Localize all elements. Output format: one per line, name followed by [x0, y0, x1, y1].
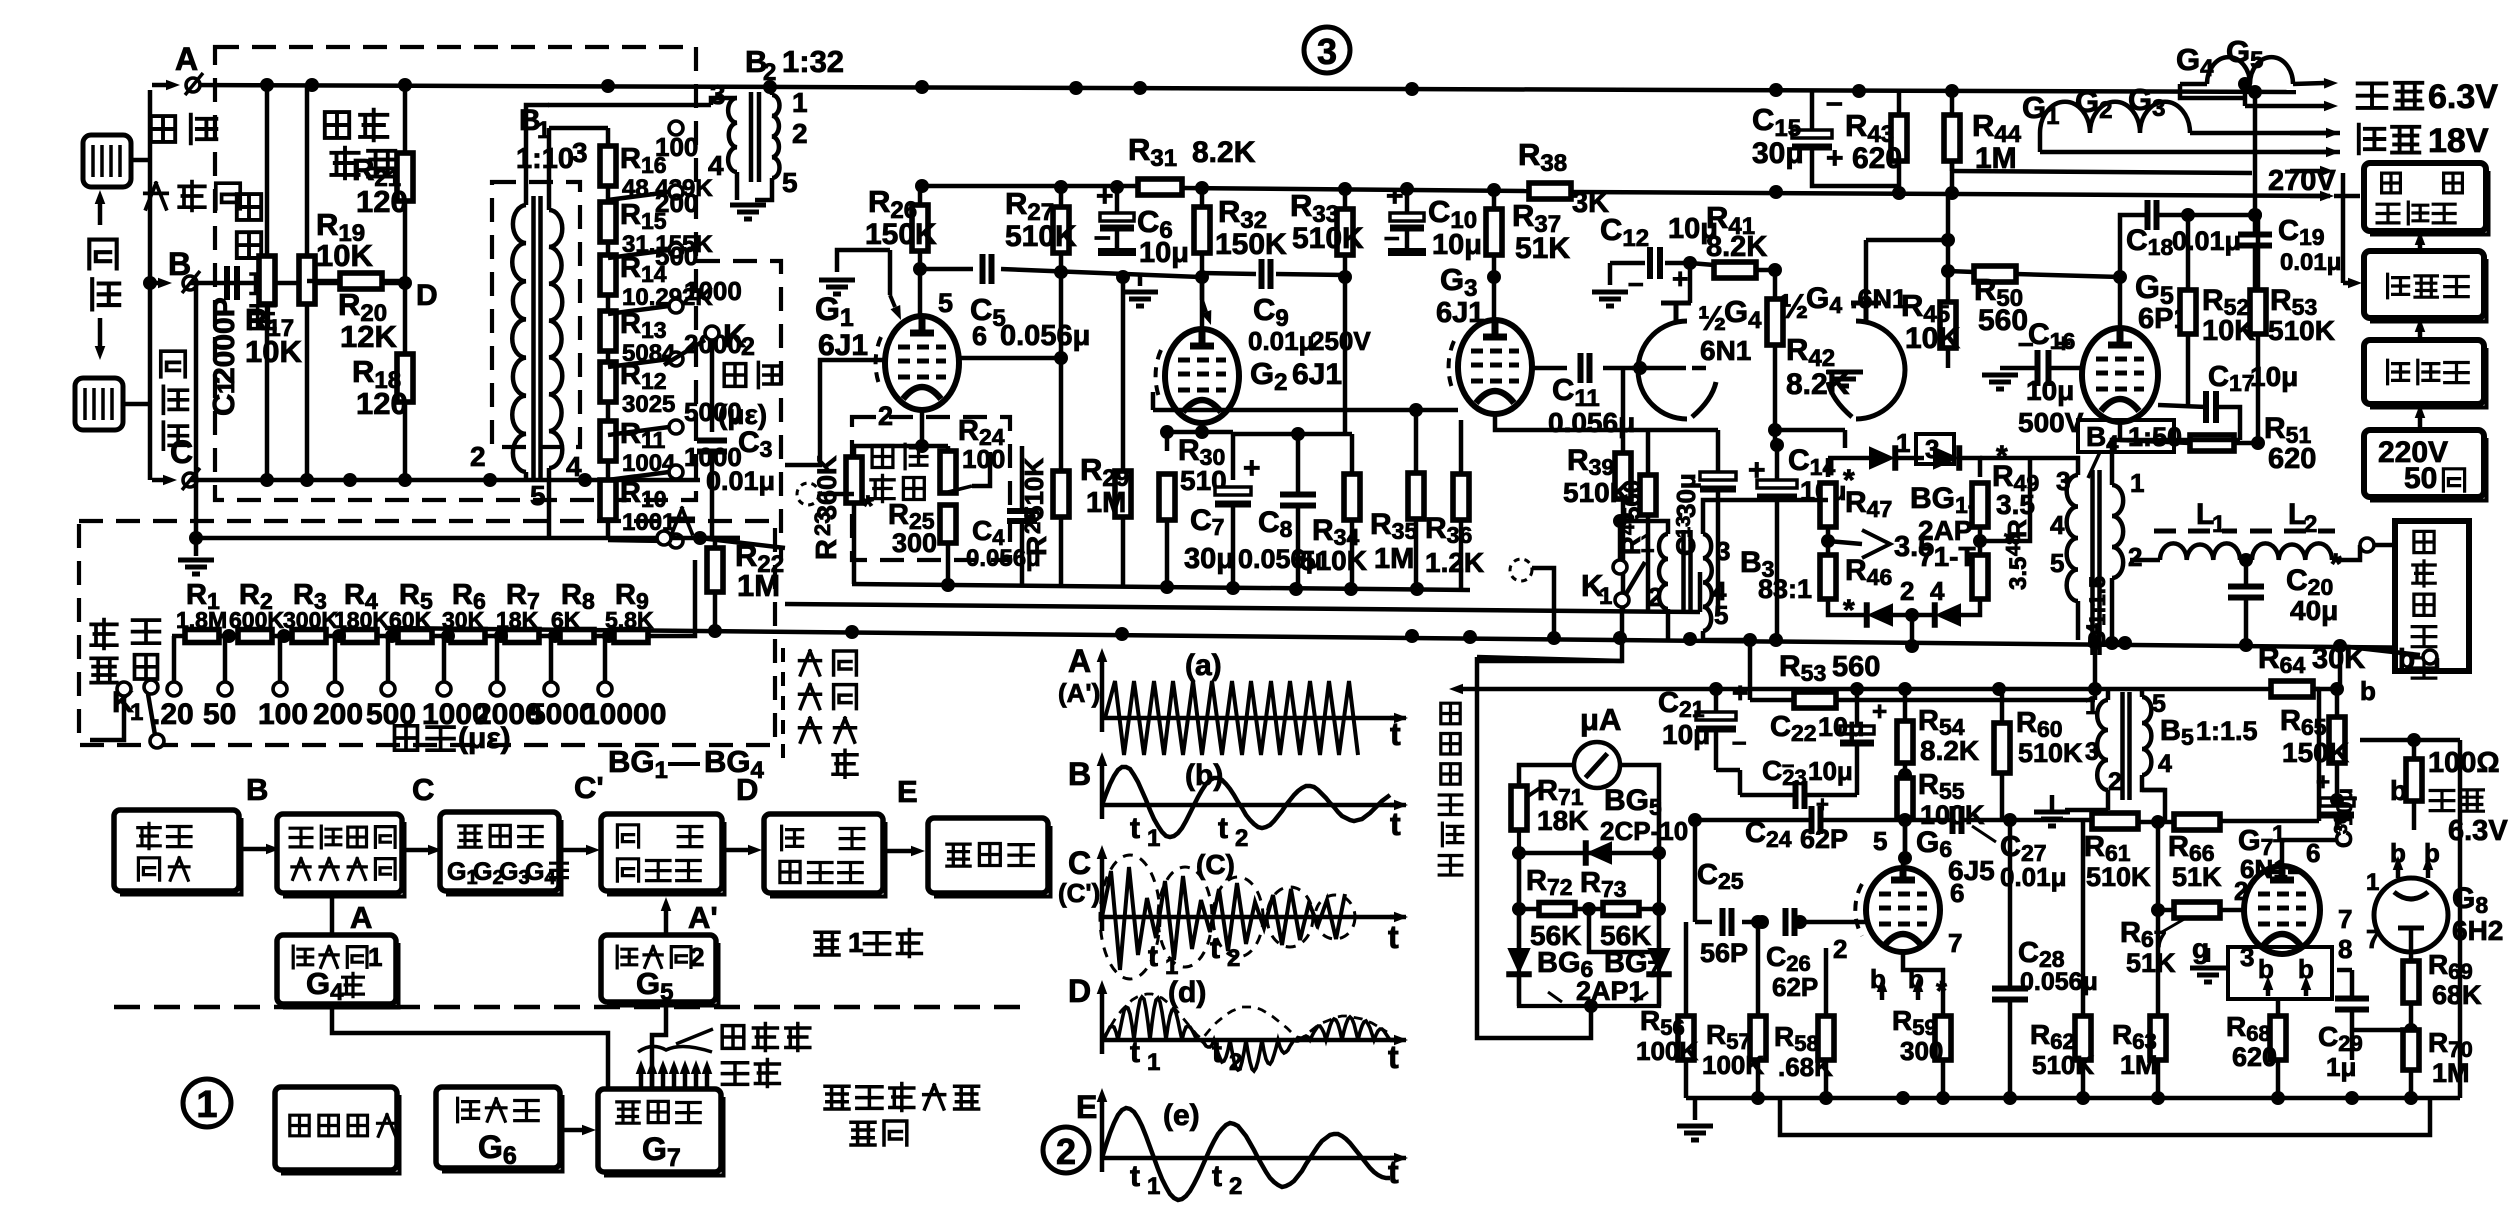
- svg-text:0.01μ: 0.01μ: [706, 466, 775, 496]
- svg-text:51K: 51K: [2172, 862, 2222, 892]
- svg-text:28: 28: [1020, 510, 1045, 534]
- tube G5 6P1: [2082, 328, 2158, 422]
- wire rail 2: [785, 604, 1700, 612]
- svg-text:3: 3: [2056, 466, 2070, 496]
- resistor R51 620: [2190, 435, 2234, 451]
- terminal 500: [669, 243, 683, 257]
- circled 1: [183, 1079, 231, 1127]
- svg-text:10μ: 10μ: [2250, 361, 2298, 392]
- wire grid row y820: [1695, 818, 1812, 823]
- tube G8 6H2: [2374, 878, 2448, 952]
- svg-text:½: ½: [1698, 300, 1726, 338]
- label 输入系统屏蔽盒 vertical: [781, 648, 785, 760]
- svg-text:51K: 51K: [2126, 948, 2176, 978]
- switch K2: [705, 326, 719, 340]
- svg-text:A: A: [1068, 643, 1091, 679]
- svg-text:B: B: [246, 772, 268, 807]
- svg-text:150K: 150K: [2282, 737, 2349, 768]
- svg-text:1:1.5: 1:1.5: [2085, 576, 2110, 626]
- electrolytic C10 10u: [1390, 213, 1424, 221]
- svg-text:300: 300: [1900, 1036, 1943, 1066]
- tube G6 6J5: [1866, 868, 1940, 952]
- resistor R50 560: [1974, 266, 2016, 282]
- svg-text:t: t: [1388, 1154, 1399, 1190]
- dashed circle input node: [797, 483, 819, 505]
- resistor R60 510K: [1994, 723, 2010, 773]
- terminal bottom 1000: [669, 534, 683, 548]
- diode bridge BG1-4 2AP71-T: [1826, 458, 1831, 477]
- terminal 1000: [669, 465, 683, 479]
- svg-text:560: 560: [1832, 651, 1880, 683]
- svg-text:1: 1: [368, 942, 382, 972]
- resistor R57 100K: [1750, 1016, 1766, 1060]
- wire to B: [150, 281, 158, 286]
- svg-text:6J1: 6J1: [1436, 297, 1484, 329]
- electrolytic C15 30u: [1792, 130, 1832, 138]
- meter uA: [1574, 742, 1620, 788]
- transformer B1 1:10: [512, 205, 526, 472]
- svg-text:1: 1: [130, 699, 143, 726]
- capacitor C20 40u: [2228, 587, 2264, 598]
- block 整流器: [2364, 251, 2484, 318]
- resistor R38 3K: [1529, 183, 1571, 199]
- waveform (b): [1102, 767, 1390, 837]
- resistor R23 360K: [846, 457, 862, 503]
- wire anode node G1: [918, 269, 923, 316]
- resistor R41 8.2K: [1714, 262, 1756, 278]
- grid ground G2: [1138, 273, 1143, 286]
- resistor R12: [600, 362, 616, 402]
- waveform (d) bursts: [1102, 997, 1390, 1071]
- svg-text:1:50: 1:50: [2128, 422, 2182, 452]
- label 各通道公用 单元: [825, 1086, 849, 1109]
- svg-text:+: +: [1386, 180, 1404, 213]
- svg-text:5.8K: 5.8K: [605, 607, 654, 633]
- svg-text:2: 2: [1229, 1173, 1242, 1200]
- svg-text:68K: 68K: [2432, 980, 2482, 1010]
- svg-text:510K: 510K: [1300, 545, 1367, 576]
- wire B1-3' to B2-3: [548, 103, 711, 108]
- G7 pins box: [2228, 947, 2332, 999]
- tube G7 6N1: [2244, 866, 2320, 954]
- svg-text:2: 2: [2234, 876, 2248, 906]
- terminal tap 200: [332, 629, 346, 643]
- capacitor C26 62P: [1786, 908, 1795, 936]
- transformer B5 1:1.5: [2097, 700, 2108, 790]
- waveform (c) oscillation: [1102, 867, 1345, 970]
- svg-text:4: 4: [2050, 510, 2065, 540]
- svg-text:12K: 12K: [340, 319, 397, 354]
- svg-text:–: –: [1732, 726, 1746, 756]
- svg-text:1000: 1000: [684, 276, 742, 306]
- svg-text:1: 1: [792, 87, 808, 118]
- block 低通滤波器: [764, 814, 883, 893]
- strain gauge upper (temperature compensation): [83, 135, 131, 187]
- svg-text:+: +: [1826, 142, 1844, 175]
- terminal tap .20: [172, 636, 177, 682]
- wire main bottom rail: [385, 628, 2440, 648]
- svg-text:100K: 100K: [1636, 1036, 1698, 1066]
- svg-text:0.01μ: 0.01μ: [2172, 226, 2241, 256]
- svg-text:500V: 500V: [2018, 407, 2084, 438]
- svg-text:100Ω: 100Ω: [2428, 747, 2500, 779]
- resistor R68 620: [2270, 1016, 2286, 1060]
- label off 关: [671, 508, 693, 534]
- tube G1 6J1: [885, 316, 959, 410]
- resistor R55 100K: [1897, 778, 1913, 818]
- svg-text:510K: 510K: [2032, 1050, 2094, 1080]
- svg-text:C: C: [170, 434, 193, 470]
- wire bridge feed from B3: [1740, 498, 1828, 503]
- capacitor C1 2000P: [227, 266, 237, 300]
- diode BG7: [1657, 909, 1662, 950]
- svg-text:.6N1: .6N1: [1850, 284, 1907, 314]
- AC 6.3V arrows: [2293, 83, 2324, 84]
- svg-text:t: t: [1212, 1036, 1222, 1069]
- resistor R63 1M: [2150, 1016, 2166, 1060]
- resistor R18 120: [397, 354, 413, 402]
- cathode/bias network: dashed box 量程微调: [852, 417, 1010, 560]
- svg-text:83:1: 83:1: [1758, 574, 1812, 604]
- svg-text:8.2K: 8.2K: [1706, 231, 1767, 263]
- resistor R17 10K: [259, 256, 275, 304]
- svg-text:μA: μA: [1580, 702, 1621, 737]
- dashed box calibration: [79, 521, 775, 745]
- half tube G4 left: [1638, 321, 1687, 419]
- wire top rail y690: [1716, 687, 2320, 692]
- svg-text:10μ: 10μ: [1808, 756, 1853, 786]
- dashed box bridge area: [215, 47, 696, 500]
- svg-text:3.5: 3.5: [2005, 557, 2032, 590]
- svg-text:100K: 100K: [1702, 1050, 1764, 1080]
- svg-text:62P: 62P: [1800, 824, 1848, 854]
- resistor R59 300: [1935, 1016, 1951, 1060]
- svg-text:1:1.5: 1:1.5: [2196, 716, 2258, 746]
- resistor R67 51K: [2174, 902, 2220, 918]
- waveform (a) axes: [1100, 662, 1105, 732]
- resistor R53 510K: [2250, 290, 2266, 334]
- wire stabilizer feed down: [2341, 173, 2346, 283]
- svg-text:2: 2: [2128, 542, 2142, 572]
- wire C29 to R69: [2352, 1028, 2411, 1033]
- block 放大器 G1G2G3G4: [440, 812, 559, 891]
- svg-text:1M: 1M: [2432, 1058, 2470, 1088]
- resistor R43 620: [1891, 115, 1907, 161]
- svg-text:1: 1: [2366, 869, 2379, 896]
- svg-text:1: 1: [1147, 825, 1160, 852]
- resistor R49 3.5: [1972, 483, 1988, 527]
- svg-text:100: 100: [962, 444, 1005, 474]
- svg-text:(με): (με): [458, 722, 511, 755]
- svg-text:*: *: [1843, 594, 1855, 627]
- wire rail calib: [196, 536, 740, 541]
- dashed circle shield node: [1510, 559, 1532, 581]
- node B terminal: [183, 276, 197, 290]
- resistor R36 1.2K: [1453, 474, 1469, 520]
- wire G4 grid left: [1638, 366, 1643, 371]
- svg-text:1: 1: [1147, 1049, 1160, 1076]
- resistor R4 180K: [343, 630, 377, 643]
- electrolytic C22 10u: [1840, 726, 1874, 734]
- svg-text:(d): (d): [1168, 976, 1206, 1009]
- svg-text:5: 5: [782, 167, 798, 198]
- wire right edge down: [2458, 740, 2463, 1098]
- electrolytic C14 10u: [1757, 480, 1797, 488]
- resistor 100ohm: [2406, 759, 2422, 801]
- svg-text:*: *: [2330, 548, 2342, 581]
- svg-text:2: 2: [1900, 576, 1914, 606]
- label 交流6.3V: [2358, 83, 2387, 108]
- wire bridge right to B4: [1980, 458, 2030, 541]
- resistor R52 10K: [2180, 290, 2196, 334]
- resistor R15: [600, 202, 616, 242]
- wire B5 sec to 100ohm: [2142, 790, 2165, 820]
- svg-text:b: b: [2398, 643, 2415, 674]
- resistor R9 5.8K: [614, 630, 648, 643]
- arrow transformer to rectifier: [2418, 332, 2423, 340]
- capacitor C19 0.01u: [2238, 235, 2272, 246]
- capacitor C8 0.056u: [1280, 495, 1316, 506]
- svg-text:300: 300: [892, 528, 937, 558]
- terminal tap 50: [222, 629, 236, 643]
- svg-text:510K: 510K: [2268, 315, 2335, 346]
- svg-text:3: 3: [1716, 536, 1730, 566]
- svg-text:180K: 180K: [334, 607, 389, 633]
- resistor R45 10K: [1940, 302, 1956, 348]
- svg-text:.68K: .68K: [1778, 1052, 1833, 1082]
- label 工作片 vertical: [161, 351, 185, 377]
- svg-text:2CP-10: 2CP-10: [1600, 816, 1688, 846]
- svg-text:1: 1: [2212, 511, 2225, 538]
- svg-text:5: 5: [1873, 826, 1887, 856]
- terminal tap 2000: [494, 629, 508, 643]
- svg-text:6: 6: [2306, 838, 2320, 868]
- svg-text:56P: 56P: [1700, 938, 1748, 968]
- wire G6 cathode: [1903, 952, 1943, 1000]
- label 第1通道: [815, 932, 839, 955]
- svg-text:5: 5: [938, 288, 953, 318]
- resistor R8 6K: [560, 630, 594, 643]
- diode BG5: [1519, 851, 1659, 856]
- resistor R65 150K: [2329, 717, 2345, 763]
- svg-text:1:32: 1:32: [782, 44, 844, 79]
- svg-text:0.056μ: 0.056μ: [1000, 320, 1090, 352]
- waveform (d) axes: [1100, 994, 1105, 1054]
- svg-text:10K: 10K: [316, 238, 373, 273]
- svg-text:1: 1: [848, 927, 864, 958]
- svg-text:510K: 510K: [2018, 738, 2083, 768]
- resistor R28 510K: [1053, 471, 1069, 517]
- terminal tap 500: [385, 629, 399, 643]
- svg-text:1M: 1M: [2120, 1050, 2158, 1080]
- svg-text:–: –: [1628, 267, 1644, 298]
- grid ground G1: [837, 250, 890, 272]
- resistor R16: [600, 146, 616, 186]
- resistor R56 100K: [1678, 1016, 1694, 1060]
- svg-text:10μ: 10μ: [1818, 712, 1865, 742]
- resistor R6 30K: [451, 630, 485, 643]
- svg-text:+: +: [1732, 677, 1748, 708]
- resistor R13: [600, 311, 616, 351]
- svg-text:5: 5: [1714, 600, 1728, 630]
- wire meter mid tap: [1589, 909, 1652, 952]
- resistor R69 68K: [2403, 961, 2419, 1003]
- electrolytic C30 10u: [2320, 798, 2354, 806]
- svg-text:3: 3: [572, 137, 588, 168]
- svg-text:t: t: [1148, 940, 1158, 973]
- svg-text:1M: 1M: [737, 568, 780, 603]
- svg-text:0.01μ: 0.01μ: [1248, 326, 1315, 356]
- svg-text:4: 4: [708, 150, 724, 181]
- svg-text:51K: 51K: [1515, 232, 1570, 265]
- svg-text:2: 2: [1229, 1049, 1242, 1076]
- resistor R44 1M: [1944, 115, 1960, 161]
- resistor R30 510: [1159, 474, 1175, 520]
- meter box: [1519, 802, 1659, 1006]
- resistor R29 1M: [1115, 471, 1131, 517]
- svg-text:C: C: [1671, 537, 1701, 557]
- svg-text:t: t: [1388, 1039, 1399, 1075]
- block 电磁示波器: [2395, 521, 2469, 671]
- G2 cathode network: [1200, 422, 1205, 432]
- resistor R21 120: [397, 153, 413, 201]
- arrow rectifier to stabilizer: [2418, 245, 2423, 251]
- label 温度补偿片: [151, 116, 175, 142]
- svg-text:E: E: [1076, 1089, 1097, 1125]
- label B4 1:50 box: [2078, 420, 2174, 452]
- svg-text:2: 2: [690, 942, 704, 972]
- svg-text:7: 7: [1948, 928, 1962, 958]
- svg-text:60K: 60K: [389, 607, 432, 633]
- svg-text:6: 6: [1950, 878, 1964, 908]
- svg-text:50: 50: [2404, 462, 2437, 495]
- svg-text:t: t: [1130, 1036, 1140, 1069]
- wire top bus A: [188, 85, 2296, 92]
- wire R45 to G4 anode column: [1866, 238, 1948, 243]
- resistor R3 300K: [292, 630, 326, 643]
- terminal 200: [669, 185, 683, 199]
- block 220V 50Hz: [2364, 430, 2484, 497]
- svg-text:–: –: [1826, 86, 1843, 119]
- wire C14 to R42: [1770, 438, 1784, 452]
- svg-text:6.3V: 6.3V: [2448, 815, 2508, 847]
- svg-text:7: 7: [2338, 904, 2352, 934]
- svg-text:1M: 1M: [1374, 543, 1414, 575]
- svg-text:8: 8: [2338, 934, 2352, 964]
- resistor R70 1M: [2403, 1030, 2419, 1070]
- svg-text:48: 48: [2003, 534, 2025, 556]
- label 平衡 测量 vertical: [91, 620, 117, 649]
- resistor R14: [600, 255, 616, 295]
- svg-text:150K: 150K: [865, 218, 937, 251]
- capacitor C9 0.01u 250V: [1262, 259, 1271, 289]
- svg-text:620: 620: [1852, 142, 1902, 175]
- strain gauge lower (working gauge): [75, 378, 123, 430]
- second bottom wire: [1780, 1098, 2430, 1135]
- resistor R47: [1820, 483, 1836, 527]
- svg-text:2: 2: [1227, 945, 1240, 972]
- svg-text:E: E: [897, 774, 918, 809]
- resistor R37 51K: [1486, 209, 1502, 255]
- electrolytic C16 10u 500V: [2038, 350, 2049, 386]
- resistor R32 150K: [1194, 207, 1210, 253]
- arrows to other channels: [639, 1074, 644, 1087]
- waveform (d) dashed envelope: [1102, 994, 1387, 1040]
- svg-text:2: 2: [1056, 1131, 1076, 1172]
- label 标定(με): [395, 726, 418, 750]
- resistor R54 8.2K: [1897, 721, 1913, 763]
- svg-text:8.2K: 8.2K: [1920, 735, 1979, 766]
- terminal tap 1000: [441, 629, 455, 643]
- svg-text:100: 100: [258, 698, 308, 731]
- resistor R64 30K: [2271, 681, 2313, 697]
- resistor R2 600K: [238, 630, 272, 643]
- svg-text:D: D: [416, 279, 438, 312]
- svg-text:(A'): (A'): [1058, 678, 1100, 708]
- svg-text:250V: 250V: [1310, 326, 1371, 356]
- circled 3: [1304, 27, 1350, 73]
- svg-text:10K: 10K: [1905, 322, 1960, 355]
- svg-text:4: 4: [2158, 750, 2172, 778]
- block 缓冲级2 G5: [601, 935, 716, 1002]
- resistor R26 150K: [912, 205, 928, 251]
- svg-text:3: 3: [2085, 738, 2099, 766]
- svg-text:4: 4: [566, 451, 582, 482]
- svg-text:10μ: 10μ: [1139, 237, 1189, 269]
- wire G5 cathode to C17: [2118, 422, 2123, 440]
- terminal 100: [669, 121, 683, 135]
- dashed separator: [114, 1005, 1020, 1010]
- resistor R58 .68K: [1818, 1016, 1834, 1060]
- capacitor C28 0.056u: [1992, 989, 2028, 1000]
- svg-text:1: 1: [196, 1084, 217, 1126]
- wire G6 grid left: [1800, 920, 1866, 925]
- svg-text:500: 500: [655, 241, 698, 271]
- svg-text:1M: 1M: [1975, 142, 2017, 175]
- node A terminal: [186, 78, 200, 92]
- capacitor C12 10u: [1650, 247, 1660, 279]
- G3 cathode: [1495, 414, 1560, 430]
- block 放大器 G7: [598, 1089, 721, 1172]
- waveform (b) axes: [1100, 766, 1105, 819]
- svg-text:2: 2: [470, 441, 486, 472]
- wire G1 cathode down: [854, 410, 922, 446]
- terminal tap 10000: [602, 629, 616, 643]
- resistor R71 18K: [1511, 786, 1527, 830]
- svg-text:2: 2: [1235, 825, 1248, 852]
- resistor R25 300: [940, 505, 956, 543]
- waveform (e): [1102, 1108, 1390, 1200]
- capacitor C27 0.01u: [1953, 806, 1962, 834]
- svg-text:6J1: 6J1: [818, 329, 868, 362]
- svg-text:150K: 150K: [1215, 228, 1287, 261]
- svg-text:A: A: [350, 900, 372, 935]
- resistor ladder R16-R10: [606, 128, 611, 540]
- wire R42 bottom junction: [1768, 423, 1782, 437]
- svg-text:6N1: 6N1: [1700, 335, 1751, 366]
- block 振荡器 G6: [436, 1087, 560, 1168]
- tube G2 6J1: [1165, 329, 1239, 423]
- svg-text:A: A: [175, 41, 198, 77]
- label 电阻平衡: [325, 112, 349, 138]
- svg-text:D: D: [736, 772, 758, 807]
- svg-text:1.2K: 1.2K: [1425, 547, 1484, 578]
- svg-text:6J1: 6J1: [1292, 358, 1342, 391]
- block 电源部分: [275, 1087, 397, 1170]
- svg-text:23: 23: [810, 512, 835, 536]
- svg-text:2: 2: [763, 59, 776, 86]
- svg-text:40μ: 40μ: [2290, 595, 2338, 626]
